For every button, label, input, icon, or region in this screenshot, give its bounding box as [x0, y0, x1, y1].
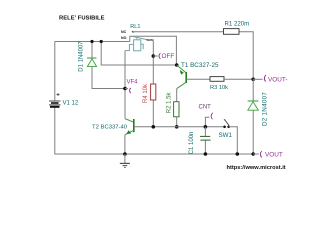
diode D1 wire: [92, 42, 125, 89]
connector VOUT paren: [260, 151, 262, 157]
relay NC contact line to R1: [132, 31, 224, 33]
wire left rail upper (battery +): [54, 42, 56, 101]
svg-text:T2 BC337-40: T2 BC337-40: [92, 125, 128, 131]
svg-text:RL1: RL1: [130, 24, 140, 30]
resistor R3 box: [210, 77, 224, 82]
node dot VOUT-: [251, 78, 255, 82]
diode D2 wire: [252, 79, 254, 154]
wire top rail: [55, 41, 130, 43]
connector VOUT- tap: [253, 78, 262, 80]
wire drop from top rail to mid horizontal: [101, 42, 177, 66]
node dot C1 bottom: [204, 152, 208, 156]
svg-text:NO: NO: [121, 36, 127, 40]
svg-text:V1 12: V1 12: [63, 100, 79, 106]
ground: [120, 154, 130, 168]
relay coil right pin wire: [141, 44, 143, 49]
connector OFF paren: [159, 53, 160, 59]
svg-text:T1 BC327-25: T1 BC327-25: [181, 62, 219, 69]
battery plus mark: [57, 93, 60, 96]
node dot T2 emitter / ground: [123, 152, 127, 156]
relay NO contact line: [132, 36, 176, 65]
wire T1 collector to R2: [176, 89, 178, 102]
node dot R4 base: [152, 125, 156, 129]
relay COM line down to R4 and T2 base: [152, 41, 154, 84]
svg-text:D1 1N4007: D1 1N4007: [79, 41, 85, 72]
wire SW1 to bottom rail: [229, 127, 238, 154]
wire R3 to VOUT- node: [224, 78, 253, 80]
resistor R2 box: [174, 102, 179, 117]
diode D2 symbol: [248, 101, 259, 110]
relay armature link: [136, 37, 138, 40]
wire R2 to base node: [176, 117, 178, 127]
svg-text:SW1: SW1: [219, 132, 233, 139]
svg-text:RELE' FUSIBILE: RELE' FUSIBILE: [59, 15, 105, 21]
connector VF4 paren: [130, 88, 131, 93]
battery V1: [49, 101, 61, 107]
svg-text:R2 1.5k: R2 1.5k: [166, 92, 172, 114]
node dot SW1 drop: [236, 152, 240, 156]
wire top rail to NO step: [130, 36, 132, 41]
svg-text:R1 220m: R1 220m: [225, 21, 250, 28]
capacitor C1 plates: [200, 136, 211, 140]
svg-text:VOUT: VOUT: [265, 152, 283, 159]
wire T1 base to R3: [187, 78, 210, 80]
connector VF4 tap: [125, 88, 128, 90]
switch SW1 terminals: [223, 126, 226, 129]
connector OFF tap: [153, 55, 157, 57]
node dot T1 emitter junction: [175, 63, 179, 67]
node OFF junction dot: [152, 54, 156, 58]
svg-text:C1 100n: C1 100n: [189, 132, 195, 155]
transistor T1 BC327-25 (PNP): [177, 65, 187, 89]
svg-text:NC: NC: [121, 30, 127, 34]
resistor R1 box: [224, 29, 240, 35]
resistor R4 box: [151, 84, 156, 100]
node dot: [90, 40, 93, 43]
wire left rail lower: [55, 107, 253, 154]
svg-text:R4 10k: R4 10k: [143, 83, 149, 103]
connector VOUT- paren: [264, 75, 266, 82]
relay coil left pin wire: [125, 44, 134, 50]
relay coil box: [134, 40, 141, 51]
switch SW1 blade: [224, 120, 229, 126]
capacitor C1 wires: [204, 127, 206, 136]
node dot R2/base: [175, 125, 179, 129]
connector VOUT tap: [253, 153, 259, 155]
node dot CNT/C1: [204, 125, 208, 129]
relay NC contact tick: [132, 31, 134, 33]
svg-text:https://www.microst.it: https://www.microst.it: [227, 165, 286, 171]
node dot: [100, 40, 103, 43]
svg-text:VF4: VF4: [127, 80, 139, 86]
wire coil pin down to T2 collector: [124, 51, 126, 119]
svg-text:CNT: CNT: [199, 105, 212, 111]
connector CNT tap: [205, 117, 209, 127]
svg-text:D2 1N4007: D2 1N4007: [261, 92, 268, 126]
connector CNT paren: [211, 113, 213, 120]
relay blade (COM armature): [133, 36, 150, 40]
wire T2 emitter down: [124, 135, 126, 154]
diode D1 symbol: [87, 58, 97, 67]
svg-text:R3 10k: R3 10k: [210, 85, 228, 91]
node VF4 junction dot: [123, 87, 127, 91]
svg-text:OFF: OFF: [162, 53, 175, 60]
wire T2 base node rail: [134, 126, 224, 128]
node dot VOUT: [251, 152, 255, 156]
svg-text:VOUT-: VOUT-: [268, 76, 288, 83]
transistor T2 BC337-40 (NPN, mirrored): [125, 119, 134, 135]
resistor R1 wires: [239, 32, 253, 80]
T1 emitter arrow: [180, 70, 184, 75]
T2 emitter arrow: [126, 130, 131, 134]
